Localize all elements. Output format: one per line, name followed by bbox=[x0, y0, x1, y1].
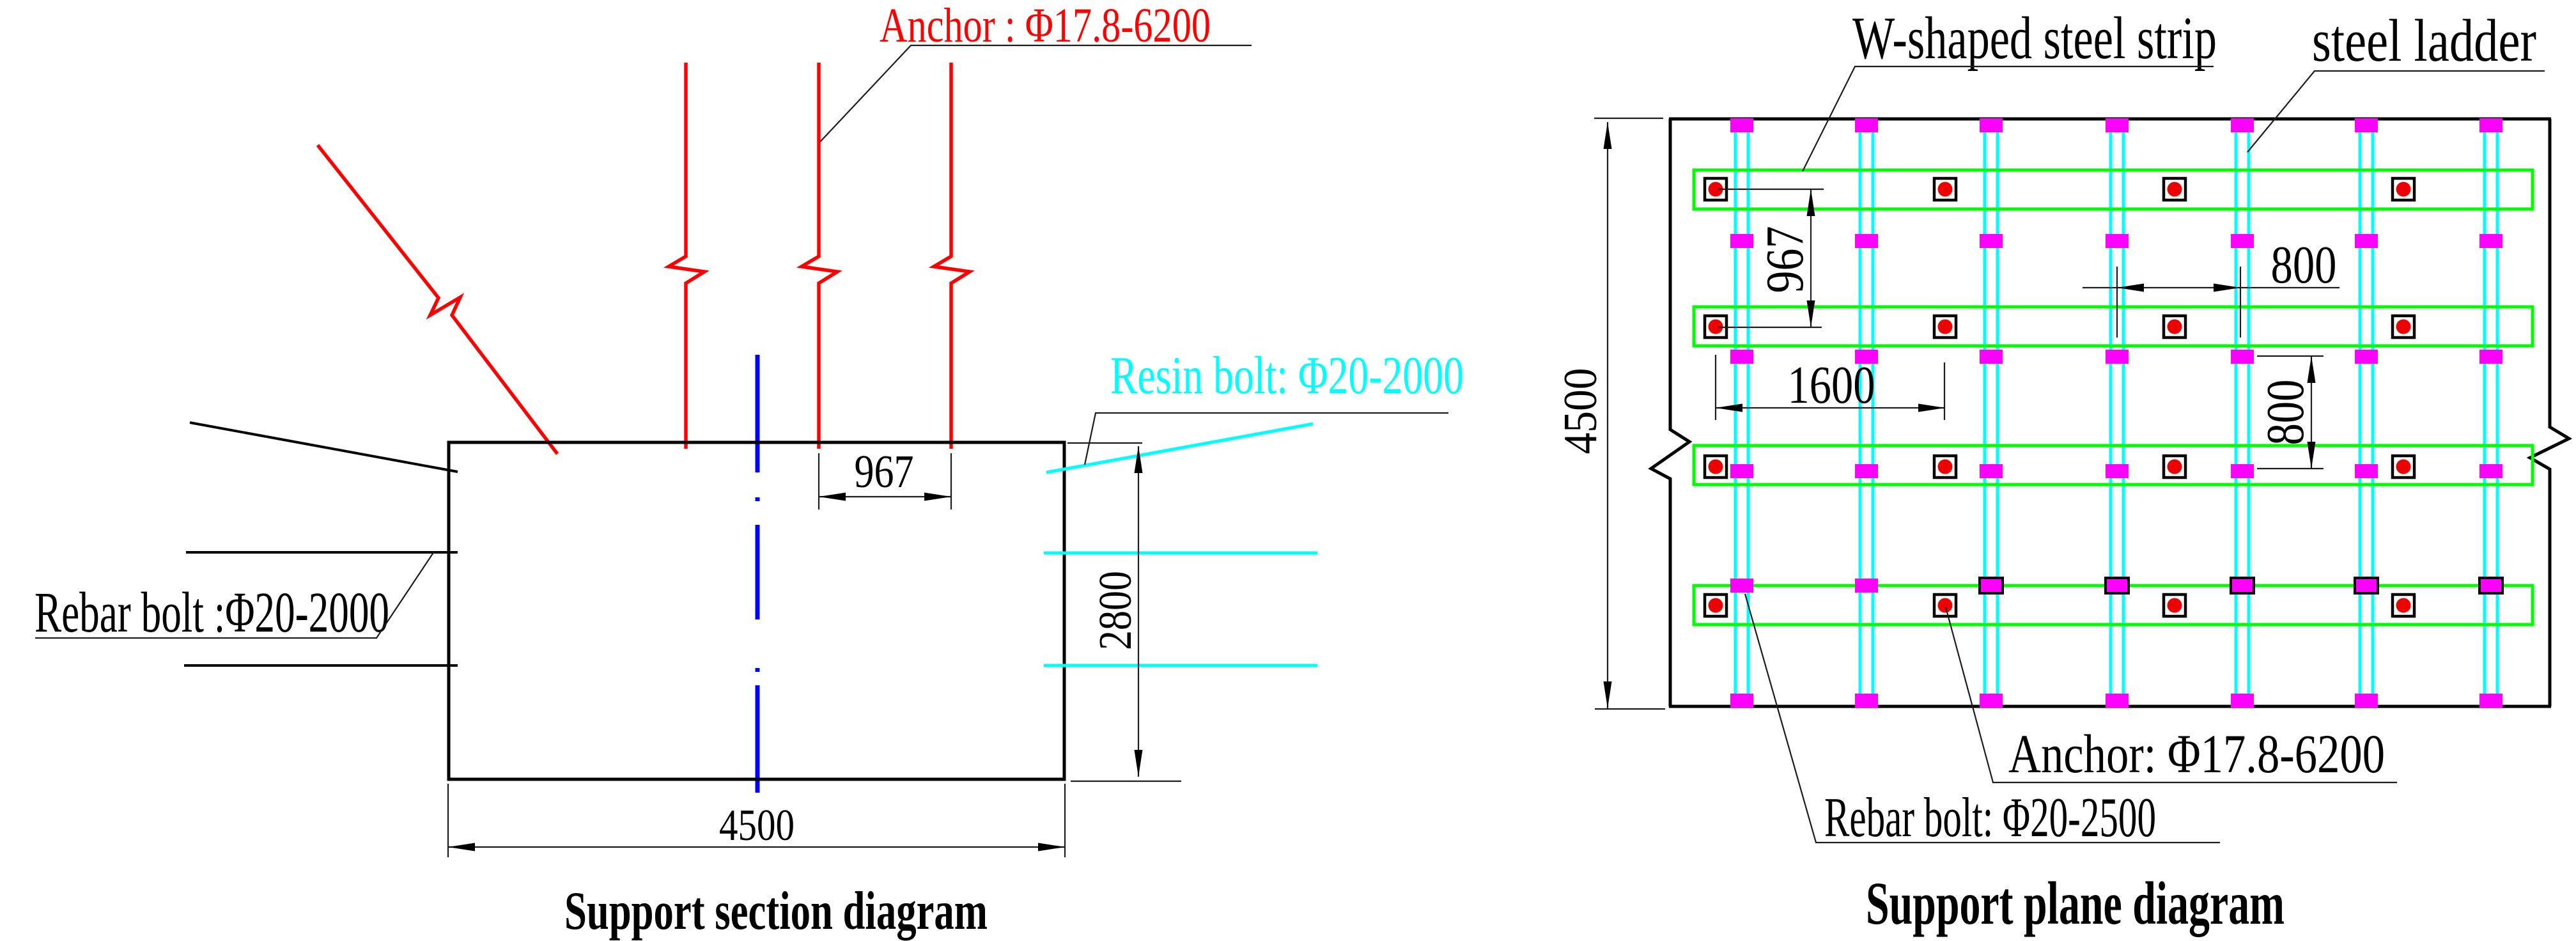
anchor (square+red dot) row4 col2 bbox=[1934, 595, 1956, 616]
anchor (square+red dot) row3 col2 bbox=[1934, 456, 1956, 478]
svg-text:4500: 4500 bbox=[719, 801, 795, 850]
rebar bolt plate (magenta) row6 col1 bbox=[1730, 694, 1753, 708]
steel ladder (cyan pair) x=2725 bbox=[1734, 120, 1737, 705]
W-shaped steel strip 1 (green) bbox=[1694, 170, 2533, 209]
svg-text:967: 967 bbox=[855, 446, 914, 497]
leader for bottom Rebar label bbox=[1745, 594, 2220, 843]
anchor (square+red dot) row4 col3 bbox=[2164, 595, 2185, 616]
rebar bolt plate (magenta) row6 col6 bbox=[2355, 694, 2378, 708]
resin bolt (cyan horizontal, lower) bbox=[1044, 664, 1317, 667]
rebar bolt plate (magenta) row1 col2 bbox=[1855, 118, 1878, 132]
resin bolt (cyan horizontal, upper) bbox=[1044, 552, 1317, 555]
rebar bolt plate (magenta) row2 col3 bbox=[1980, 234, 2003, 248]
steel ladder (cyan pair) x=3897 bbox=[2483, 120, 2487, 705]
rebar bolt plate (magenta) row4 col7 bbox=[2479, 464, 2502, 478]
plane outer boundary (left edge with break) bbox=[1651, 119, 1689, 706]
leader line for Rebar label bbox=[35, 552, 434, 638]
leader for bottom Anchor label bbox=[1946, 607, 2397, 782]
rebar bolt plate (magenta) row5 col7 bbox=[2479, 578, 2502, 593]
rebar bolt plate (magenta) row4 col1 bbox=[1730, 464, 1753, 478]
anchor (square+red dot) row2 col2 bbox=[1934, 316, 1956, 338]
svg-text:W-shaped steel strip: W-shaped steel strip bbox=[1852, 5, 2217, 72]
rebar bolt plate (magenta) row3 col6 bbox=[2355, 350, 2378, 364]
rebar bolt plate (magenta) row6 col7 bbox=[2479, 694, 2502, 708]
leader for W-shaped label bbox=[1803, 66, 2214, 171]
rebar bolt plate (magenta) row2 col7 bbox=[2479, 234, 2502, 248]
rebar bolt plate (magenta) row3 col7 bbox=[2479, 350, 2502, 364]
dimension 4500 (right figure) bbox=[1594, 118, 1665, 709]
roadway section rectangle bbox=[449, 442, 1064, 779]
svg-text:800: 800 bbox=[2256, 380, 2315, 446]
plane outer boundary (right edge with break) bbox=[2530, 119, 2569, 706]
plane outer boundary (bottom edge) bbox=[1669, 705, 2551, 708]
W-shaped steel strip 2 (green) bbox=[1694, 307, 2533, 346]
svg-text:1600: 1600 bbox=[1788, 355, 1875, 415]
rebar bolt plate (magenta) row3 col5 bbox=[2231, 350, 2254, 364]
dimension 800 (horizontal) bbox=[2083, 267, 2339, 338]
steel ladder (cyan pair) x=3115 bbox=[1983, 120, 1987, 705]
svg-text:2800: 2800 bbox=[1089, 571, 1141, 650]
dimension 1600 bbox=[1716, 355, 1945, 420]
rebar bolt plate (magenta) row1 col6 bbox=[2355, 118, 2378, 132]
svg-text:Rebar bolt :Φ20-2000: Rebar bolt :Φ20-2000 bbox=[35, 581, 389, 644]
dimension 967 (left figure) bbox=[819, 453, 951, 509]
rebar bolt plate (magenta) row1 col1 bbox=[1730, 118, 1753, 132]
svg-text:Anchor: Φ17.8-6200: Anchor: Φ17.8-6200 bbox=[2008, 723, 2385, 784]
anchor bolt (red diagonal) with break bbox=[318, 145, 557, 454]
resin bolt (cyan diagonal) bbox=[1046, 424, 1313, 472]
steel ladder (cyan pair) x=2920 bbox=[1859, 120, 1862, 705]
anchor (square+red dot) row4 col4 bbox=[2393, 595, 2414, 616]
anchor (square+red dot) row1 col3 bbox=[2164, 178, 2185, 200]
anchor (square+red dot) row1 col4 bbox=[2393, 178, 2414, 200]
rebar bolt plate (magenta) row6 col4 bbox=[2106, 694, 2129, 708]
anchor (square+red dot) row3 col3 bbox=[2164, 456, 2185, 478]
rebar bolt plate (magenta) row4 col6 bbox=[2355, 464, 2378, 478]
leader line for Resin label bbox=[1085, 413, 1448, 465]
rebar bolt plate (magenta) row1 col7 bbox=[2479, 118, 2502, 132]
anchor (square+red dot) row2 col4 bbox=[2393, 316, 2414, 338]
rebar bolt plate (magenta) row5 col4 bbox=[2106, 578, 2129, 593]
rebar bolt plate (magenta) row1 col4 bbox=[2106, 118, 2129, 132]
rebar bolt plate (magenta) row6 col2 bbox=[1855, 694, 1878, 708]
rebar bolt (black horizontal, middle) bbox=[186, 551, 458, 554]
rebar bolt plate (magenta) row4 col3 bbox=[1980, 464, 2003, 478]
leader line for Anchor label bbox=[819, 45, 1252, 143]
rebar bolt (black horizontal, lower) bbox=[184, 664, 458, 667]
rebar bolt plate (magenta) row5 col5 bbox=[2231, 578, 2254, 593]
rebar bolt plate (magenta) row5 col1 bbox=[1730, 579, 1753, 593]
rebar bolt plate (magenta) row4 col4 bbox=[2106, 464, 2129, 478]
plane outer boundary (top edge) bbox=[1669, 118, 2551, 121]
W-shaped steel strip 4 (green) bbox=[1694, 586, 2533, 625]
anchor (square+red dot) row1 col1 bbox=[1705, 178, 1726, 200]
anchor (square+red dot) row2 col1 bbox=[1705, 316, 1726, 338]
anchor bolt (red vertical) x=1073 with break bbox=[669, 63, 704, 449]
anchor (square+red dot) row2 col3 bbox=[2164, 316, 2185, 338]
rebar bolt plate (magenta) row2 col6 bbox=[2355, 234, 2378, 248]
svg-text:4500: 4500 bbox=[1555, 368, 1607, 455]
rebar bolt plate (magenta) row3 col3 bbox=[1980, 350, 2003, 364]
rebar bolt plate (magenta) row4 col5 bbox=[2231, 464, 2254, 478]
anchor bolt (red vertical) x=1488 with break bbox=[934, 63, 970, 449]
rebar bolt (black diagonal, upper) bbox=[190, 423, 458, 472]
rebar bolt plate (magenta) row2 col5 bbox=[2231, 234, 2254, 248]
rebar bolt plate (magenta) row1 col3 bbox=[1980, 118, 2003, 132]
rebar bolt plate (magenta) row4 col2 bbox=[1855, 464, 1878, 478]
blue centerline (dash-dot) bbox=[756, 355, 760, 793]
dimension 4500 (left figure) bbox=[448, 784, 1065, 857]
svg-text:steel ladder: steel ladder bbox=[2312, 8, 2536, 74]
svg-text:Rebar bolt: Φ20-2500: Rebar bolt: Φ20-2500 bbox=[1824, 787, 2156, 849]
rebar bolt plate (magenta) row5 col3 bbox=[1980, 578, 2003, 593]
svg-text:800: 800 bbox=[2271, 235, 2337, 295]
W-shaped steel strip 3 (green) bbox=[1694, 446, 2533, 485]
rebar bolt plate (magenta) row2 col1 bbox=[1730, 234, 1753, 248]
rebar bolt plate (magenta) row3 col2 bbox=[1855, 350, 1878, 364]
anchor (square+red dot) row1 col2 bbox=[1934, 178, 1956, 200]
anchor (square+red dot) row3 col4 bbox=[2393, 456, 2414, 478]
steel ladder (cyan pair) x=3702 bbox=[2359, 120, 2362, 705]
anchor (square+red dot) row4 col1 bbox=[1705, 595, 1726, 616]
leader for steel ladder label bbox=[2247, 71, 2545, 152]
dimension 2800 bbox=[1067, 443, 1181, 781]
svg-text:967: 967 bbox=[1755, 226, 1815, 293]
svg-text:Anchor : Φ17.8-6200: Anchor : Φ17.8-6200 bbox=[880, 0, 1211, 52]
dimension 967 (right figure) bbox=[1718, 189, 1824, 327]
rebar bolt plate (magenta) row3 col4 bbox=[2106, 350, 2129, 364]
rebar bolt plate (magenta) row2 col2 bbox=[1855, 234, 1878, 248]
rebar bolt plate (magenta) row6 col5 bbox=[2231, 694, 2254, 708]
rebar bolt plate (magenta) row5 col6 bbox=[2355, 578, 2378, 593]
rebar bolt plate (magenta) row2 col4 bbox=[2106, 234, 2129, 248]
svg-text:Support section diagram: Support section diagram bbox=[564, 881, 988, 941]
anchor bolt (red vertical) x=1281 with break bbox=[802, 63, 837, 449]
steel ladder (cyan pair) x=3508 bbox=[2235, 120, 2238, 705]
svg-text:Support plane diagram: Support plane diagram bbox=[1866, 869, 2285, 937]
anchor (square+red dot) row3 col1 bbox=[1705, 456, 1726, 478]
rebar bolt plate (magenta) row3 col1 bbox=[1730, 350, 1753, 364]
steel ladder (cyan pair) x=3312 bbox=[2109, 120, 2113, 705]
rebar bolt plate (magenta) row6 col3 bbox=[1980, 694, 2003, 708]
rebar bolt plate (magenta) row5 col2 bbox=[1855, 579, 1878, 593]
dimension 800 (vertical) bbox=[2257, 356, 2324, 469]
rebar bolt plate (magenta) row1 col5 bbox=[2231, 118, 2254, 132]
svg-text:Resin bolt: Φ20-2000: Resin bolt: Φ20-2000 bbox=[1110, 346, 1464, 405]
